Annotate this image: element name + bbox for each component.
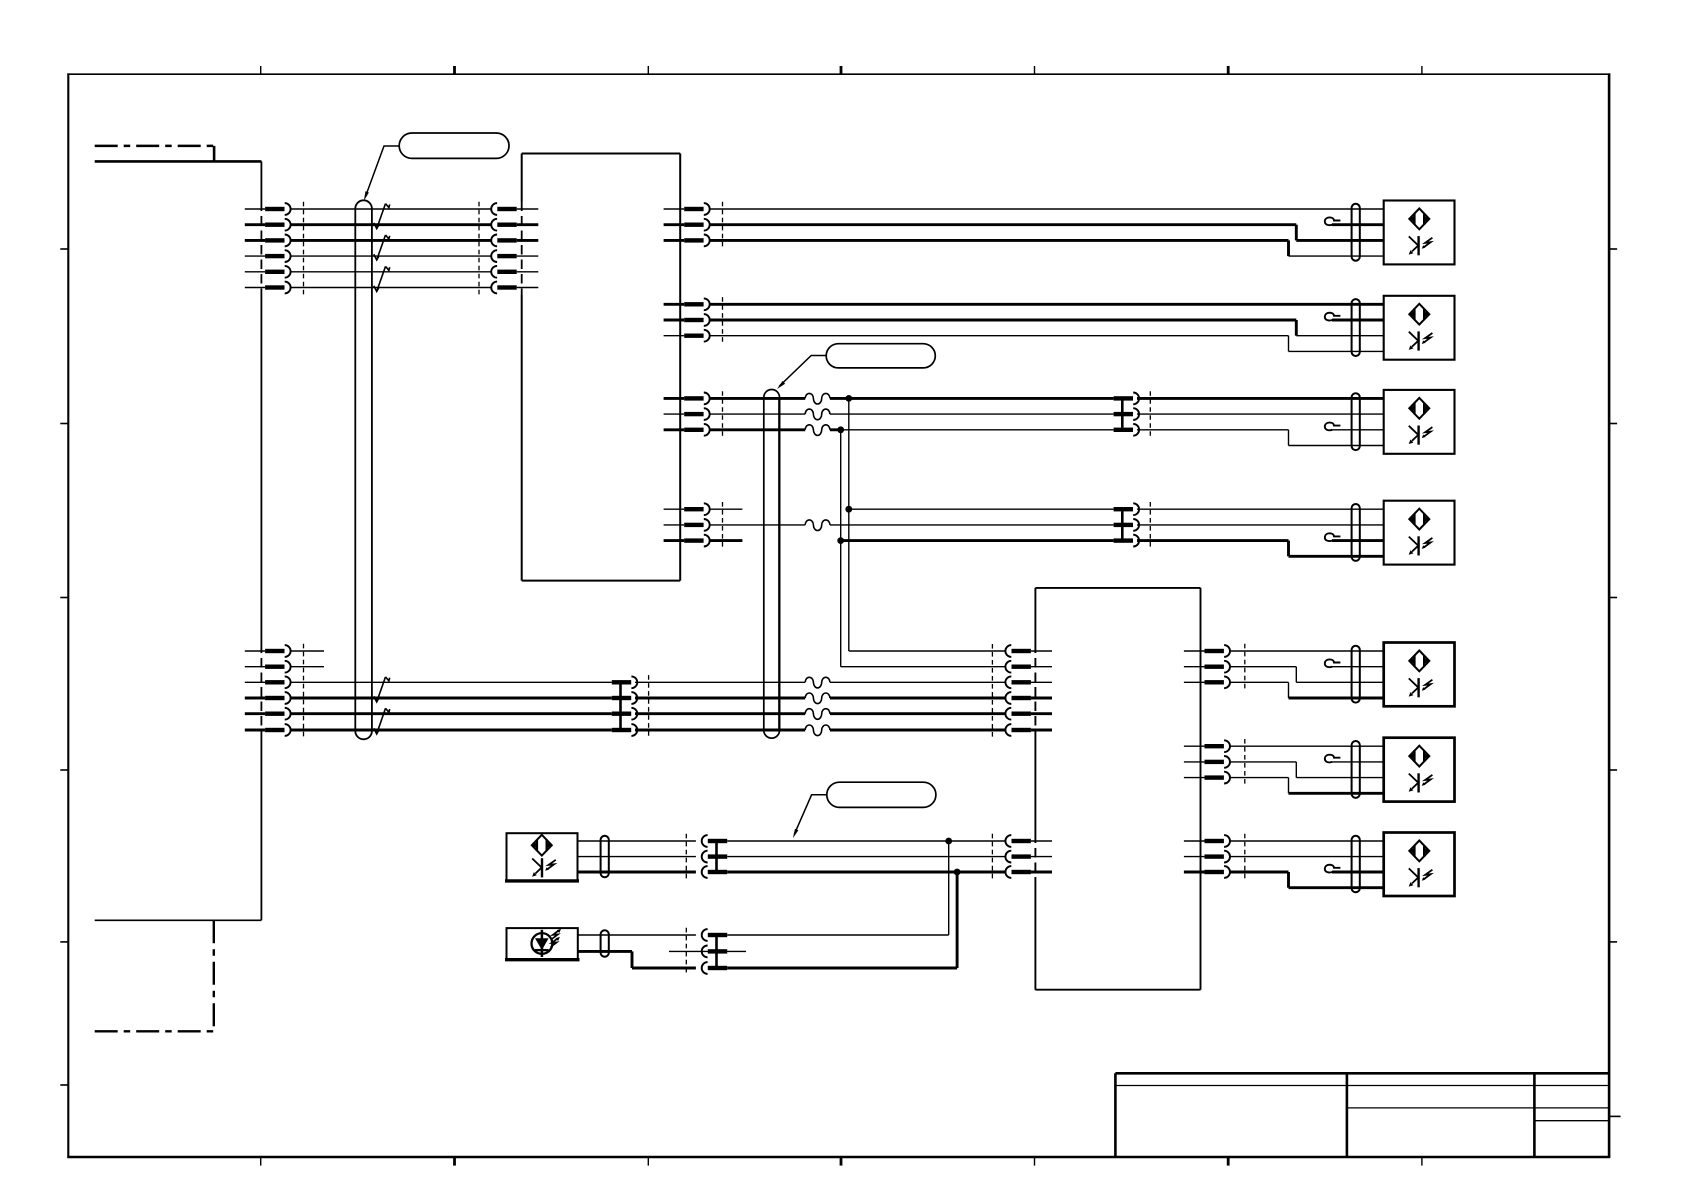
wire PCB-A CN6-2 toward PS4: [710, 524, 1114, 526]
connector CN2 (6 pins at PCB-A left edge): [491, 203, 538, 293]
wire PCB-A CN3-3 to PS1 pin4 (with step-down): [710, 240, 1384, 256]
wire PCB-A CN4-1 to sensor PS2 pin1: [710, 303, 1384, 306]
cable bundle oval at PS4: [1352, 504, 1360, 561]
wire CN7-1 to PS3 pin1: [1137, 397, 1384, 400]
dashed connector boundary at CN13: [1244, 739, 1246, 785]
dashed connector boundary at CN8: [1149, 502, 1151, 548]
LED emitter sensor PS9: [505, 928, 580, 960]
dashed connector boundary at CN4: [722, 297, 724, 343]
wire CN13-2 to PS6 pin3 (with step-down): [1230, 762, 1384, 778]
wire CN15-1 to PCB-B CN16-1: [727, 840, 1006, 842]
wire CN17-1 up to junction J5: [727, 841, 949, 935]
cable bundle oval at PS1: [1352, 204, 1360, 261]
dashed connector boundary at CN11: [648, 675, 650, 737]
wire-count slash marks on bundle W2: [374, 677, 390, 734]
cable bundle oval at PS5: [1352, 646, 1360, 703]
connector CN16 (PCB-B bottom-left, 3 pins): [1005, 835, 1052, 878]
inline connector CN8 (3 pins) on PS4 harness: [1114, 503, 1140, 546]
wire bundle CN1-CN2 (6 wires): [291, 209, 492, 288]
junction J3 on vertical tap: [845, 506, 852, 513]
connector CN6 (PCB-A right, 3 pins): [664, 503, 710, 546]
dashed connector boundary at CN3: [722, 202, 724, 248]
connector CN4 (PCB-A right, 3 pins): [664, 298, 710, 341]
wire tap J1 to CN8-1: [849, 508, 1114, 510]
wire PCB-A CN5-2 toward PS3: [710, 413, 1114, 415]
cable bundle oval at PS3: [1352, 393, 1360, 450]
photo-interrupter sensor PS4: [1384, 501, 1455, 565]
connector CN3 (PCB-A right, 3 pins): [664, 203, 710, 246]
stub wire CN10-1: [291, 650, 324, 652]
connector CN12 (PCB-B right, 3 pins): [1184, 645, 1230, 688]
PCB-A block outline: [522, 154, 681, 581]
connector CN5 (PCB-A right, 3 pins): [664, 393, 710, 436]
photo-receiver sensor PS8: [505, 833, 579, 881]
cable shield oval W2: [764, 390, 780, 739]
wire CN14-3 to PS7 pin4 (with step-down): [1230, 872, 1384, 888]
cable oval at PS8: [601, 836, 609, 878]
wire CN13-1 to PS6 pin1: [1230, 745, 1384, 747]
photo-interrupter sensor PS5: [1384, 643, 1455, 707]
connector CN9 (PCB-B left, 6 pins): [1005, 645, 1052, 736]
wire PCB-A CN4-3 to PS2 pin4 (with step-down): [710, 336, 1384, 352]
callout balloon 1 (empty label) with leader to shield W1: [364, 133, 509, 201]
wire PCB-A CN4-2 to PS2 pin3 (with step-down): [710, 320, 1384, 336]
shield pigtail hook at PS2: [1325, 313, 1384, 321]
dashed connector boundary at CN14: [1244, 834, 1246, 880]
machine chassis boundary (dash-dot), top: [95, 146, 214, 162]
dashed connector boundary at CN17: [685, 928, 687, 976]
wire CN13-3 to PS6 pin4 (with step-down): [1230, 778, 1384, 794]
slack/twist symbol on CN5-1 wire: [805, 393, 830, 404]
wire CN15-2 to PCB-B CN16-2: [727, 856, 1006, 858]
slack/twist symbol on CN5-3 wire: [805, 425, 830, 436]
stub wire CN10-2: [291, 666, 324, 668]
wire PCB-A CN3-2 to PS1 pin3 (with step-down): [710, 225, 1384, 241]
shield pigtail hook at PS6: [1325, 755, 1384, 763]
dashed connector boundary at CN6: [722, 502, 724, 548]
cable bundle oval at PS2: [1352, 299, 1360, 356]
photo-interrupter sensor PS3: [1384, 390, 1455, 454]
dashed connector boundary at CN15: [685, 834, 687, 880]
photo-interrupter sensor PS1: [1384, 201, 1455, 265]
wire CN12-1 to PS5 pin1: [1230, 650, 1384, 652]
wire CN7-2 to PS3 pin2: [1137, 413, 1384, 415]
dashed connector boundary at CN1: [303, 202, 305, 295]
junction J2 (tap to PCB-B): [837, 426, 844, 433]
wire CN12-3 to PS5 pin4 (with step-down): [1230, 682, 1384, 698]
cable oval at PS9: [601, 930, 609, 957]
shield pigtail hook at PS4: [1325, 533, 1384, 541]
slack/twist symbol on CN6-2 wire: [805, 520, 830, 531]
inline connector CN17 (3 pins): [702, 929, 728, 974]
title block (bottom right): [1115, 1073, 1609, 1157]
wire bundle CN11 to PCB-B CN9 (4 wires): [635, 682, 1006, 730]
tap wire from J2 down to PCB-B CN9-2: [841, 430, 1006, 667]
wire CN7-3 to PS3 pin4 (with step-down): [1137, 430, 1384, 446]
wire-count slash marks on bundle W1: [374, 204, 390, 292]
wire PCB-A CN3-1 to sensor PS1 pin1: [710, 208, 1384, 210]
cable shield oval W1: [355, 200, 372, 739]
callout balloon 3 (empty label) with leader to PS8 harness: [793, 782, 936, 838]
wire CN8-2 to PS4 pin2: [1137, 524, 1384, 526]
wire CN17-3 up to junction J6: [727, 872, 957, 968]
shield pigtail hook at PS7: [1325, 865, 1384, 873]
wire PCB-A CN5-3 toward PS3: [710, 428, 1114, 431]
wire CN15-3 to PCB-B CN16-3: [727, 871, 1006, 874]
inline connector CN7 (3 pins) on PS3 harness: [1114, 393, 1140, 436]
connector CN10 (left unit, lower 6 pins): [245, 645, 291, 736]
slack/twist symbols on 4-wire bundle: [805, 677, 830, 735]
cable bundle oval at PS7: [1352, 836, 1360, 893]
wire PS9-2 to connector CN17-3 (with step-down): [578, 951, 696, 968]
wire CN14-2 to PS7 pin2: [1230, 856, 1384, 858]
slack/twist symbol on CN5-2 wire: [805, 409, 830, 420]
dashed connector boundary at CN2: [478, 202, 480, 295]
photo-interrupter sensor PS6: [1384, 738, 1455, 802]
dashed connector boundary at CN7: [1149, 391, 1151, 437]
cable bundle oval at PS6: [1352, 741, 1360, 798]
wire bundle CN10 to CN11 (4 wires): [291, 682, 612, 730]
junction J4 on vertical tap: [837, 537, 844, 544]
connector CN14 (PCB-B right, 3 pins): [1184, 835, 1230, 878]
stub wire at PCB-A CN6-3: [710, 539, 743, 542]
connector CN13 (PCB-B right, 3 pins): [1184, 740, 1230, 783]
PCB-B block outline: [1035, 588, 1200, 990]
wire CN8-1 to PS4 pin1: [1137, 508, 1384, 510]
dashed connector boundary at CN16: [991, 834, 993, 880]
wire PS9-1 to connector CN17-1: [578, 934, 696, 936]
dashed connector boundary at CN9: [991, 644, 993, 738]
inline connector CN15 (3 pins): [702, 835, 728, 878]
dashed connector boundary at CN12: [1244, 644, 1246, 690]
wire CN12-2 to PS5 pin3 (with step-down): [1230, 667, 1384, 683]
machine chassis boundary (dash-dot), bottom: [95, 920, 214, 1031]
junction J6: [954, 869, 961, 876]
junction J5: [945, 838, 952, 845]
wire tap J2 to CN8-3: [841, 539, 1114, 542]
tap wire from J1 down to PCB-B CN9-1: [849, 398, 1006, 651]
dashed connector boundary at CN10: [303, 644, 305, 738]
inline connector CN11 (4 pins): [612, 676, 638, 736]
wires PS8 to connector CN15: [578, 841, 696, 872]
callout balloon 2 (empty label) with leader to shield W2: [777, 344, 935, 389]
wire CN14-1 to PS7 pin1: [1230, 840, 1384, 842]
shield pigtail hook at PS1: [1325, 217, 1384, 225]
stub wire at PCB-A CN6-1: [710, 508, 743, 510]
photo-interrupter sensor PS2: [1384, 296, 1455, 360]
connector CN1 (left unit, upper 6 pins): [245, 203, 291, 293]
shield pigtail hook at PS5: [1325, 659, 1384, 667]
left unit box outline: [95, 161, 262, 920]
junction J1 (tap to PCB-B): [845, 395, 852, 402]
shield pigtail hook at PS3: [1325, 423, 1384, 431]
photo-interrupter sensor PS7: [1384, 833, 1455, 897]
stub wire at CN17-2: [669, 950, 746, 952]
wire CN8-3 to PS4 pin4 (with step-down): [1137, 541, 1384, 557]
wire PCB-A CN5-1 toward PS3 (with slack loops): [710, 397, 1114, 400]
dashed connector boundary at CN5: [722, 391, 724, 437]
